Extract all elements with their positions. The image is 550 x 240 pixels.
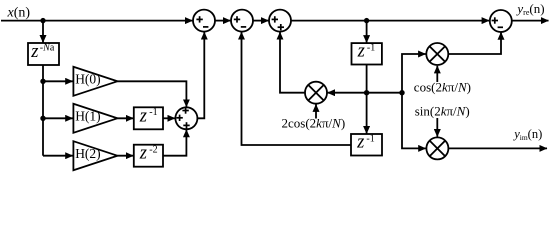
node tap H0 [40,79,45,84]
svg-text:-1: -1 [149,107,157,118]
node w(n) branch [364,18,369,23]
delay z^-1 (H1 path) [134,106,163,129]
svg-text:z: z [356,133,364,153]
svg-text:z: z [357,42,365,62]
wire coefficient arrow into M1 bottom [315,104,317,118]
wire w(n-1) down to multiplier M3 left [402,93,426,149]
wire tap to H0 [43,80,73,82]
wire output y_im [448,147,547,149]
adder A4 (final, y_re) [490,10,512,32]
label y_im(n) [512,127,542,142]
adder A1 [193,10,215,32]
label x(n) [7,6,31,21]
svg-text:z: z [139,106,147,126]
multiplier M2 (cos) [426,43,448,65]
wire branch down into delay z^-Na [42,21,44,43]
gain H(1) [73,104,117,133]
wire coefficient arrow into M3 top [436,118,438,137]
svg-text:z: z [30,42,38,62]
delay z^-1 (lower feedback) [351,133,382,156]
node input branch [40,18,45,23]
wire A2 to A3 [253,20,269,22]
svg-text:yim(n): yim(n) [512,127,542,142]
node w(n-1) [364,90,369,95]
label 2cos(2kpi/N) [282,115,346,130]
multiplier M1 (2cos) [305,82,327,104]
wire w(n-1) to multiplier M1 right [327,92,402,94]
gain H(0) [73,67,117,96]
wire branch down into delay z^-1 top [366,21,368,43]
svg-text:z: z [139,144,147,164]
svg-text:-1: -1 [367,42,375,53]
wire w(n-1) up to multiplier M2 left [402,54,426,93]
svg-text:H(2): H(2) [75,146,101,161]
svg-text:2cos(2kπ/N): 2cos(2kπ/N) [282,115,346,130]
wire A1 to A2 [215,20,231,22]
wire delay to adder A0 left [163,117,175,119]
wire lower delay output to adder A2 bottom [242,32,352,145]
multiplier M3 (sin) [426,137,448,159]
wire M1 output to adder A3 bottom [280,32,305,93]
label cos(2kpi/N) [414,80,471,95]
label sin(2kpi/N) [415,103,470,118]
svg-text:-Na: -Na [40,43,55,54]
wire coefficient arrow into M2 bottom [436,66,438,82]
svg-text:yre(n): yre(n) [515,1,544,17]
delay z^-Na [28,42,59,65]
wire delay z^-Na down to H taps [42,65,44,156]
wire output y_re [512,20,549,22]
adder A2 [231,10,253,32]
wire main input x(n) to adder A1 [1,20,193,22]
delay z^-2 (H2 path) [134,144,163,167]
delay z^-1 (top feedback) [352,42,382,65]
node tap H1 [40,116,45,121]
wire delay z^-2 to adder A0 bottom [163,130,186,156]
wire adder A0 output up to adder A1 bottom [197,32,204,118]
adder A0 (comb sum) [175,107,197,129]
gain H(2) [73,141,117,170]
svg-text:-1: -1 [366,133,374,144]
wire H2 output to delay z^-2 [117,155,133,157]
wire H1 output to delay z^-1 [117,117,133,119]
adder A3 [269,10,291,32]
label y_re(n) [515,1,544,17]
wire A3 to final adder A4 [291,20,489,22]
svg-text:sin(2kπ/N): sin(2kπ/N) [415,103,470,118]
wire delay down to lower delay [366,65,368,134]
svg-text:-2: -2 [149,144,157,155]
wire tap to H2 [43,155,73,157]
node w(n-1) right branch [399,90,404,95]
svg-text:H(0): H(0) [75,72,101,87]
wire tap to H1 [43,117,73,119]
wire H0 output to adder A0 top [117,81,186,107]
svg-text:cos(2kπ/N): cos(2kπ/N) [414,80,471,95]
svg-text:H(1): H(1) [75,109,101,124]
wire M2 output to final adder A4 bottom [448,32,501,54]
svg-text:x(n): x(n) [7,6,31,21]
